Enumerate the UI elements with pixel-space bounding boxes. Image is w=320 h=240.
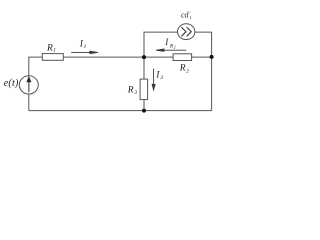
wire right rail [211,32,213,111]
label I3 [155,70,163,81]
wire bottom [29,110,212,112]
svg-text:1: 1 [84,44,87,50]
svg-text:1: 1 [189,15,191,20]
wire source to right rail corner [195,31,212,33]
svg-text:e(t): e(t) [4,78,19,89]
chevrons inside source cd1' [181,27,191,36]
current arrow IR2 [156,49,186,51]
resistor R3 [140,79,148,100]
svg-text:R: R [179,63,186,73]
bottom node junction dot [142,109,146,113]
label R1 [46,43,56,53]
resistor R1 [42,54,63,61]
svg-text:1: 1 [53,48,56,54]
wire left rail top + top wire to R1 [29,57,43,76]
label R3 [127,85,138,96]
current arrow I3 [152,69,155,91]
label e(t) [4,78,19,89]
label R2 [179,63,189,74]
wire R3 to bottom node [143,100,145,111]
right node junction dot [210,55,214,59]
wire cd branch: up from node A and across [144,32,178,57]
node A junction dot [142,55,146,59]
svg-text:I: I [164,37,169,47]
label I1 [79,40,87,51]
svg-text:2: 2 [174,45,176,50]
source e(t) (circle) [19,76,38,94]
wire R1 to node A [63,56,144,58]
label IR2 [164,37,175,50]
wire left rail bottom [28,94,30,111]
wire node A down to R3 [143,57,145,79]
label cd1' [181,11,192,20]
wire node A to R2 [144,56,173,58]
resistor R2 [173,54,192,61]
svg-text:3: 3 [159,75,163,81]
svg-text:R: R [46,43,53,53]
source cd1' (circle) [178,24,195,40]
svg-text:3: 3 [133,90,137,96]
arrow inside source e(t) [27,77,31,92]
wire R2 to right node [192,56,212,58]
svg-text:2: 2 [186,68,189,74]
current arrow I1 [71,51,98,53]
svg-text:R: R [127,85,134,95]
